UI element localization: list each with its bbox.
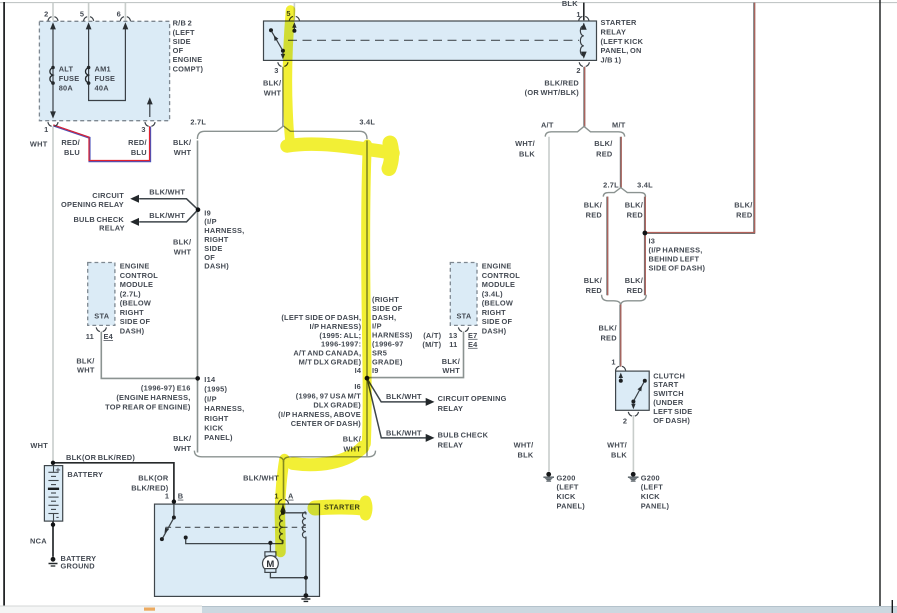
svg-text:WHT/: WHT/ (515, 139, 535, 148)
svg-text:WHT: WHT (30, 140, 48, 149)
wire BLK battery negative to ground (52, 522, 54, 557)
ground G200 left (543, 472, 554, 481)
bottom scrollbar band left (0, 606, 202, 613)
node starter pin B junction (172, 499, 176, 503)
svg-text:(RIGHT: (RIGHT (372, 295, 399, 304)
arrowhead circuit opening relay left (130, 195, 139, 203)
wire to bulb check relay (left) (139, 210, 198, 222)
svg-text:SIDE: SIDE (204, 244, 222, 253)
wire WHT feed to R/B2 pin 2 (52, 3, 54, 21)
svg-text:CENTER OF DASH): CENTER OF DASH) (291, 419, 362, 428)
svg-text:ALT: ALT (59, 65, 74, 74)
svg-text:1996-1997:: 1996-1997: (321, 340, 361, 349)
merge brace above clutch start switch (602, 295, 647, 306)
svg-text:FUSE: FUSE (95, 74, 116, 83)
svg-text:3.4L: 3.4L (637, 181, 653, 190)
svg-text:BLK/WHT: BLK/WHT (243, 473, 279, 482)
svg-text:STA: STA (457, 312, 472, 321)
wire BLK/WHT from ECM 2.7L pin to I14 (101, 332, 197, 379)
svg-text:G200: G200 (641, 473, 660, 482)
wire BLK/RED I3 branch to right edge (gray layer) (645, 3, 754, 233)
svg-text:BLK/RED: BLK/RED (544, 79, 579, 88)
starter coil 1 (279, 514, 282, 540)
wire BLK feed to starter relay pin 1 (583, 3, 585, 21)
svg-text:RED: RED (596, 149, 613, 158)
svg-text:E4: E4 (104, 332, 114, 341)
starter internal ground (304, 593, 309, 598)
starter relay pin3 exit arrow (282, 52, 284, 57)
wire BLK/RED M/T branch (red layer) (620, 137, 622, 189)
svg-text:BLK/: BLK/ (442, 357, 460, 366)
svg-text:PANEL): PANEL) (557, 501, 586, 510)
svg-text:LEFT SIDE: LEFT SIDE (653, 407, 692, 416)
svg-text:BLK: BLK (611, 451, 627, 460)
svg-text:BLK/: BLK/ (625, 201, 643, 210)
pin break ECM 2.7L (96, 327, 106, 331)
svg-text:(A/T): (A/T) (423, 331, 441, 340)
svg-text:SR5: SR5 (372, 348, 387, 357)
svg-text:PANEL): PANEL) (641, 501, 670, 510)
svg-text:(OR WHT/BLK): (OR WHT/BLK) (525, 88, 580, 97)
svg-text:2.7L: 2.7L (190, 118, 206, 127)
svg-text:RELAY: RELAY (438, 404, 464, 413)
svg-text:WHT: WHT (174, 247, 192, 256)
node I9 junction (196, 207, 201, 212)
svg-text:BLK/: BLK/ (584, 276, 602, 285)
svg-text:KICK: KICK (557, 492, 576, 501)
svg-text:5: 5 (80, 10, 84, 19)
YELLOW HIGHLIGHTER (280, 10, 393, 552)
svg-text:1: 1 (44, 125, 48, 134)
svg-text:BLK: BLK (519, 149, 535, 158)
svg-text:2: 2 (44, 10, 48, 19)
svg-text:WHT/: WHT/ (514, 441, 534, 450)
svg-text:(UNDER: (UNDER (653, 398, 684, 407)
svg-text:1: 1 (611, 358, 615, 367)
highlight blob right end (389, 143, 392, 169)
svg-text:RED: RED (600, 334, 617, 343)
svg-text:M/T: M/T (612, 120, 626, 129)
svg-text:BLK/WHT: BLK/WHT (149, 188, 185, 197)
svg-text:3: 3 (274, 66, 278, 75)
highlight sweep to starter pin A (293, 447, 363, 465)
starter contact wire to motor/coils (186, 539, 283, 544)
node battery negative junction (51, 523, 55, 527)
starter pin A arrow and coil 1 (282, 505, 284, 512)
svg-text:SWITCH: SWITCH (653, 389, 684, 398)
fuse AM1 40A (85, 66, 90, 85)
bottom scrollbar orange tick (144, 608, 155, 611)
svg-text:BLK/: BLK/ (263, 79, 281, 88)
svg-text:PANEL, ON: PANEL, ON (601, 46, 642, 55)
wire RED/BLU pin1 to pin3 loop (red layer) (53, 125, 149, 161)
merge brace above starter pin A (194, 451, 375, 462)
wire BLK/RED I3 branch to right edge (red layer) (645, 3, 755, 233)
svg-text:BLK/: BLK/ (584, 201, 602, 210)
svg-text:TOP REAR OF ENGINE): TOP REAR OF ENGINE) (105, 403, 191, 412)
node I6/I4 junction (365, 376, 370, 381)
svg-text:RED: RED (586, 211, 603, 220)
svg-text:A/T AND CANADA,: A/T AND CANADA, (293, 349, 361, 358)
svg-text:(LEFT: (LEFT (641, 483, 663, 492)
splice 2.7L/3.4L split under relay pin 3 (197, 126, 367, 139)
svg-text:(LEFT SIDE OF DASH,: (LEFT SIDE OF DASH, (281, 313, 361, 322)
wire WHT feed to starter relay pin 5 (293, 3, 295, 21)
svg-text:RED: RED (586, 286, 603, 295)
svg-text:FUSE: FUSE (59, 74, 80, 83)
wire BLK/RED starter relay pin 2 (red layer) (584, 67, 586, 127)
svg-text:(1996, 97 USA M/T: (1996, 97 USA M/T (296, 391, 361, 400)
svg-text:3.4L: 3.4L (359, 118, 375, 127)
pin 2 break starter relay (579, 62, 589, 66)
right border line (879, 0, 881, 606)
bottom right black tick (891, 600, 893, 613)
clutch start switch internals (620, 377, 622, 379)
starter relay coil (580, 26, 583, 56)
svg-text:RED: RED (736, 211, 753, 220)
top border line (0, 2, 897, 4)
svg-text:E7: E7 (468, 331, 478, 340)
wire WHT pin1 R/B2 down to battery (52, 127, 54, 463)
svg-text:(1995: ALL;: (1995: ALL; (319, 331, 361, 340)
svg-text:HARNESS,: HARNESS, (204, 226, 244, 235)
wire BLK battery positive to starter pin B (53, 463, 174, 503)
svg-text:HARNESS): HARNESS) (372, 331, 413, 340)
svg-text:J/B 1): J/B 1) (601, 56, 622, 65)
ARROWHEADS to relays (130, 195, 434, 442)
svg-text:ENGINE: ENGINE (173, 55, 203, 64)
svg-text:+: + (56, 464, 61, 474)
wire BLK/WHT 2.7L left column (197, 141, 199, 453)
starter motor wires (270, 544, 306, 578)
svg-text:M/T DLX GRADE): M/T DLX GRADE) (299, 358, 362, 367)
starter box (155, 504, 320, 596)
highlight down through pin A into starter (280, 459, 285, 552)
svg-text:GROUND: GROUND (61, 561, 96, 570)
svg-text:(ENGINE HARNESS,: (ENGINE HARNESS, (116, 393, 190, 402)
svg-text:RIGHT: RIGHT (204, 235, 228, 244)
svg-text:11: 11 (86, 332, 94, 341)
battery box (44, 466, 62, 521)
pin 3 break R/B2 (145, 122, 155, 126)
svg-text:RED/: RED/ (61, 138, 80, 147)
svg-text:(BELOW: (BELOW (120, 299, 151, 308)
ground G200 right (628, 472, 639, 481)
svg-text:BLK/: BLK/ (734, 201, 752, 210)
R/B2 pin 3 arrow stub (149, 100, 151, 118)
svg-text:GRADE): GRADE) (372, 357, 403, 366)
highlight down 3.4L column (366, 144, 368, 444)
wire BLK/WHT starter relay pin 3 down (282, 67, 284, 127)
wire BLK/RED merged to clutch pin 1 (gray layer) (619, 305, 621, 367)
engine control module 3.4L box (450, 263, 477, 326)
svg-text:RIGHT: RIGHT (120, 308, 144, 317)
svg-text:B: B (178, 492, 184, 501)
svg-text:BLK: BLK (518, 451, 534, 460)
svg-text:(BELOW: (BELOW (482, 299, 513, 308)
svg-text:(1996-97: (1996-97 (372, 340, 404, 349)
svg-text:BLK/: BLK/ (625, 276, 643, 285)
svg-text:13: 13 (449, 331, 458, 340)
pin break ECM 3.4L (458, 327, 468, 331)
svg-text:BLK/: BLK/ (173, 434, 191, 443)
wire BLK/WHT from ECM 3.4L pin to I6 junction (367, 332, 464, 378)
svg-text:DASH,: DASH, (372, 313, 396, 322)
wire to circuit opening relay (left) (139, 199, 198, 210)
node battery positive junction (51, 461, 55, 465)
node I14 junction (195, 376, 200, 381)
bottom scrollbar band right (202, 606, 897, 613)
wire BLK/RED 2.7L sub-branch (red layer) (607, 197, 609, 296)
svg-text:(I/P: (I/P (204, 394, 217, 403)
svg-text:DLX GRADE): DLX GRADE) (313, 401, 361, 410)
starter motor M (265, 552, 276, 556)
starter relay box (264, 21, 597, 60)
svg-text:DASH): DASH) (120, 326, 145, 335)
svg-text:MODULE: MODULE (120, 280, 154, 289)
svg-text:(I/P HARNESS, ABOVE: (I/P HARNESS, ABOVE (278, 410, 361, 419)
node I3 junction (643, 231, 648, 236)
wire BLK/RED merged to clutch pin 1 (red layer) (620, 305, 622, 367)
highlight stroke through starter relay (287, 10, 290, 146)
wire BLK/RED 2.7L sub-branch (gray layer) (606, 197, 608, 296)
left border line (3, 2, 5, 606)
svg-text:2: 2 (576, 66, 580, 75)
svg-text:OF: OF (173, 46, 184, 55)
pin 1 break R/B2 (48, 122, 58, 126)
wire BLK/RED M/T branch (gray layer) (620, 137, 622, 189)
starter relay dashed link (288, 39, 579, 41)
svg-text:80A: 80A (59, 83, 74, 92)
svg-text:I14: I14 (204, 375, 216, 384)
svg-text:40A: 40A (95, 83, 110, 92)
wire BLK/RED 3.4L sub-branch (red layer) (644, 197, 646, 296)
svg-text:WHT/: WHT/ (607, 441, 627, 450)
svg-text:SIDE OF: SIDE OF (120, 317, 151, 326)
svg-text:A: A (288, 492, 294, 501)
svg-text:BULB CHECK: BULB CHECK (438, 431, 489, 440)
svg-text:BLU: BLU (64, 148, 80, 157)
pin 5 break starter relay (289, 16, 299, 20)
svg-text:(I/P: (I/P (204, 217, 217, 226)
ground battery (49, 557, 58, 566)
svg-text:SIDE OF: SIDE OF (372, 304, 403, 313)
svg-text:SIDE OF DASH): SIDE OF DASH) (649, 264, 706, 273)
svg-text:COMPT): COMPT) (173, 64, 204, 73)
svg-text:A/T: A/T (541, 120, 554, 129)
splice 2.7L/3.4L split on M/T branch (603, 188, 645, 197)
wire BLK/RED starter relay pin 2 (gray layer) (583, 67, 585, 127)
svg-text:(LEFT KICK: (LEFT KICK (601, 37, 644, 46)
svg-text:WHT: WHT (77, 366, 95, 375)
wire to bulb check relay (right) (368, 381, 427, 438)
svg-text:6: 6 (117, 10, 121, 19)
arrowhead bulb check relay left (130, 218, 139, 226)
svg-text:RELAY: RELAY (438, 441, 464, 450)
wire BLK/WHT 3.4L center column (366, 141, 368, 457)
svg-text:BEHIND LEFT: BEHIND LEFT (649, 254, 700, 263)
arrowhead circuit opening relay right (426, 398, 435, 406)
svg-text:BLK/WHT: BLK/WHT (149, 211, 185, 220)
svg-text:2: 2 (623, 417, 627, 426)
svg-text:BATTERY: BATTERY (67, 470, 103, 479)
svg-text:1: 1 (165, 492, 169, 501)
wire feed to R/B2 pin 6 (124, 3, 126, 21)
svg-text:WHT: WHT (442, 366, 460, 375)
relay block R/B 2 box (39, 21, 169, 120)
svg-text:BLK/: BLK/ (594, 139, 612, 148)
svg-text:RIGHT: RIGHT (482, 308, 506, 317)
wire WHT/BLK clutch pin 2 down to ground (632, 415, 634, 472)
pin 6 break R/B2 (120, 17, 130, 21)
svg-text:I/P HARNESS): I/P HARNESS) (310, 322, 362, 331)
svg-text:BLK(OR: BLK(OR (138, 474, 169, 483)
svg-text:RED: RED (627, 286, 644, 295)
fuse ALT 80A (50, 66, 55, 85)
svg-text:(M/T): (M/T) (422, 340, 441, 349)
wire BLK/WHT feed to starter pin A (283, 461, 285, 500)
svg-text:BLK/WHT: BLK/WHT (386, 428, 422, 437)
svg-text:BLK(OR BLK/RED): BLK(OR BLK/RED) (66, 453, 135, 462)
svg-text:STA: STA (94, 312, 109, 321)
svg-text:RED/: RED/ (128, 138, 147, 147)
svg-text:KICK: KICK (641, 492, 660, 501)
svg-text:CONTROL: CONTROL (120, 271, 159, 280)
svg-text:I3: I3 (649, 236, 656, 245)
svg-text:CIRCUIT: CIRCUIT (92, 191, 124, 200)
svg-text:WHT: WHT (264, 89, 282, 98)
splice A/T-M/T split (545, 126, 624, 136)
svg-text:RELAY: RELAY (601, 27, 627, 36)
svg-text:(3.4L): (3.4L) (482, 289, 503, 298)
svg-text:RED: RED (627, 211, 644, 220)
svg-text:AM1: AM1 (95, 65, 111, 74)
svg-text:CONTROL: CONTROL (482, 271, 521, 280)
wire BLK/RED 3.4L sub-branch (gray layer) (644, 197, 646, 296)
svg-text:11: 11 (449, 340, 457, 349)
svg-text:(I/P HARNESS,: (I/P HARNESS, (649, 245, 703, 254)
starter link to coil 2 (283, 513, 306, 578)
starter coil 2 (302, 512, 305, 538)
pin 2 break R/B2 (48, 17, 58, 21)
svg-text:BLK/: BLK/ (173, 138, 191, 147)
pin 1 break starter relay (579, 16, 589, 20)
svg-text:BLK/WHT: BLK/WHT (386, 392, 422, 401)
pin 2 break clutch start switch (628, 412, 638, 416)
svg-text:(LEFT: (LEFT (557, 483, 579, 492)
R/B2 AM1 fuse circuit wire (89, 25, 126, 101)
svg-text:2.7L: 2.7L (603, 181, 619, 190)
svg-text:I/P: I/P (372, 322, 382, 331)
starter relay switch (269, 28, 273, 32)
svg-text:BLK/: BLK/ (599, 324, 617, 333)
svg-text:BULB CHECK: BULB CHECK (73, 215, 124, 224)
highlight over STARTER label (315, 500, 362, 516)
svg-text:I6: I6 (354, 382, 361, 391)
svg-text:WHT: WHT (174, 148, 192, 157)
svg-text:BLK: BLK (562, 0, 578, 8)
wire RED/BLU pin1 to pin3 loop (blue layer) (54, 126, 151, 162)
svg-text:NCA: NCA (30, 537, 47, 546)
arrowhead bulb check relay right (426, 434, 435, 442)
svg-text:BLK/: BLK/ (173, 237, 191, 246)
starter ground drop (305, 578, 307, 596)
svg-text:RELAY: RELAY (99, 224, 125, 233)
wire feed to R/B2 pin 5 (88, 3, 90, 21)
svg-text:BLK/RED): BLK/RED) (131, 483, 169, 492)
svg-text:SIDE OF: SIDE OF (482, 317, 513, 326)
svg-text:ENGINE: ENGINE (482, 262, 512, 271)
svg-text:OPENING RELAY: OPENING RELAY (61, 200, 124, 209)
pin 1 break clutch start switch (616, 366, 626, 370)
pin 5 break R/B2 (84, 17, 94, 21)
svg-text:I9: I9 (372, 366, 379, 375)
svg-text:ENGINE: ENGINE (120, 262, 150, 271)
svg-text:BLK/: BLK/ (76, 357, 94, 366)
COMPONENT INTERNALS (48, 22, 647, 601)
battery internals (48, 466, 59, 521)
svg-text:WHT: WHT (174, 444, 192, 453)
svg-text:WHT: WHT (30, 441, 48, 450)
svg-text:HARNESS,: HARNESS, (204, 404, 244, 413)
svg-text:START: START (653, 380, 679, 389)
svg-text:(1995): (1995) (204, 385, 227, 394)
svg-text:MODULE: MODULE (482, 280, 516, 289)
svg-text:KICK: KICK (204, 424, 223, 433)
svg-text:PANEL): PANEL) (204, 433, 233, 442)
svg-text:CLUTCH: CLUTCH (653, 371, 685, 380)
PIN BREAK SYMBOLS (48, 16, 639, 503)
svg-text:(2.7L): (2.7L) (120, 289, 141, 298)
svg-text:BLK/: BLK/ (343, 435, 361, 444)
svg-text:I4: I4 (355, 366, 362, 375)
engine control module 2.7L box (88, 263, 115, 326)
R/B2 ALT fuse circuit wire (52, 25, 54, 117)
starter internals (166, 526, 306, 528)
svg-text:RIGHT: RIGHT (204, 414, 228, 423)
svg-text:STARTER: STARTER (601, 18, 638, 27)
wire WHT/BLK A/T branch down to ground (548, 137, 550, 472)
pin A break starter (278, 499, 288, 503)
svg-text:E4: E4 (468, 340, 478, 349)
starter switch from pin B (173, 504, 175, 516)
wire to circuit opening relay (right) (367, 379, 426, 402)
svg-text:I9: I9 (204, 208, 211, 217)
svg-text:SIDE: SIDE (173, 37, 191, 46)
svg-text:BLU: BLU (131, 148, 147, 157)
svg-text:(LEFT: (LEFT (173, 28, 195, 37)
clutch start switch box (616, 371, 650, 410)
pin 3 break starter relay (278, 62, 288, 66)
svg-text:G200: G200 (557, 473, 576, 482)
highlight horizontal over 3.4L BLK/WHT (287, 144, 393, 153)
svg-text:(1996-97) E16: (1996-97) E16 (141, 383, 191, 392)
svg-text:OF: OF (204, 253, 215, 262)
svg-text:1: 1 (576, 10, 580, 19)
svg-text:R/B 2: R/B 2 (173, 19, 192, 28)
svg-text:CIRCUIT OPENING: CIRCUIT OPENING (438, 394, 507, 403)
svg-text:3: 3 (141, 125, 145, 134)
svg-text:OF DASH): OF DASH) (653, 416, 690, 425)
svg-text:DASH): DASH) (204, 262, 229, 271)
svg-text:-: - (56, 512, 59, 522)
starter relay pin5 contact arrow (293, 24, 295, 30)
svg-text:DASH): DASH) (482, 326, 507, 335)
